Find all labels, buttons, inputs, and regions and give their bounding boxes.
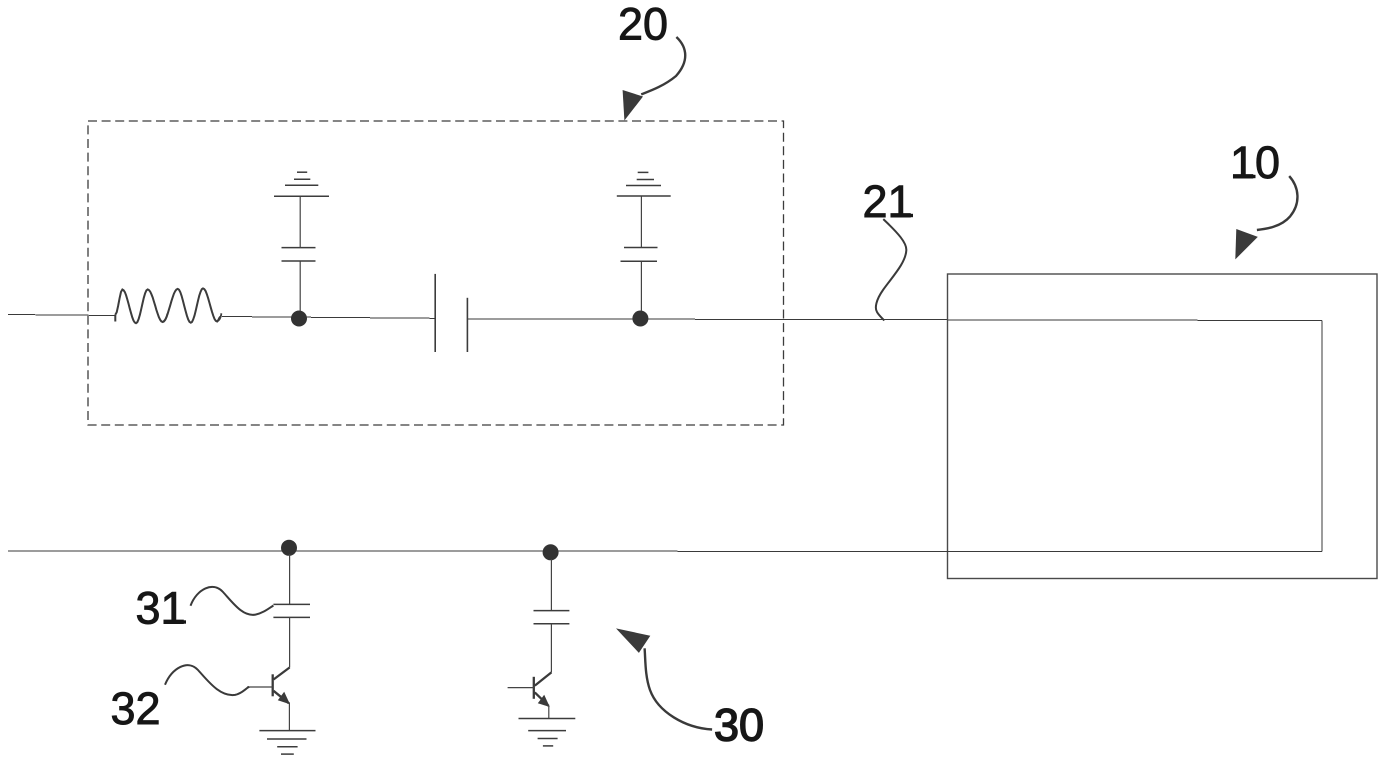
ground (above C1, pointing up)	[274, 172, 329, 196]
wire: bottom feed line	[8, 550, 1322, 553]
svg-text:20: 20	[618, 0, 668, 50]
svg-text:30: 30	[714, 700, 764, 751]
capacitor C1 plates	[282, 260, 316, 262]
junction node D (bottom wire, right)	[543, 544, 559, 560]
leader arrow for 30	[645, 648, 713, 729]
transistor Q2	[508, 672, 552, 718]
wire: top feed line, left segment into box	[8, 315, 115, 316]
ground (Q1 emitter)	[259, 731, 315, 755]
leader squiggle for 31 (to capacitor 31)	[191, 587, 274, 615]
leader arrow for 20	[641, 37, 685, 94]
capacitor C1 (shunt, left) : stem from node A	[299, 261, 301, 311]
leader arrow for 10	[1257, 176, 1298, 230]
wire: top line from C2 to loop antenna	[467, 319, 1322, 321]
dashed box: matching network 20	[88, 121, 784, 425]
wire: node D down to capacitor C5	[550, 559, 552, 611]
capacitor C3 plates	[621, 260, 658, 262]
ground (Q2 emitter)	[519, 719, 576, 746]
wire: C3 to ground	[640, 196, 642, 248]
junction node C (bottom wire, left)	[281, 540, 297, 556]
capacitor C3 (shunt, right) : stem from node B	[640, 261, 642, 311]
leader squiggle for 32 (to Q1 base)	[165, 665, 249, 695]
capacitor C2 right plate	[466, 298, 468, 352]
antenna loop 10 : inner U (right edge of feed loop)	[1321, 321, 1323, 552]
ground (above C3, pointing up)	[617, 172, 671, 196]
wire: top line from coil to series capacitor	[222, 317, 435, 319]
junction node B (top wire, right)	[632, 311, 648, 327]
svg-text:10: 10	[1230, 137, 1280, 188]
capacitor C2 (series) left plate	[434, 274, 436, 352]
wire: node C down to capacitor 31	[289, 554, 291, 604]
svg-text:32: 32	[111, 683, 161, 734]
transistor Q1 (labelled 32)	[247, 668, 290, 731]
svg-text:31: 31	[136, 583, 186, 634]
svg-text:21: 21	[863, 176, 913, 227]
antenna loop 10 : outer rectangle	[948, 274, 1378, 579]
capacitor C5 plates	[534, 610, 570, 612]
capacitor 31 plates	[273, 603, 310, 605]
inductor L (coil)	[115, 288, 220, 323]
junction node A (top wire, left)	[291, 311, 307, 327]
wire: capacitor C5 to transistor Q2 collector	[550, 624, 552, 673]
wire: C1 to ground	[299, 196, 301, 247]
wire: capacitor 31 to transistor Q1 collector	[289, 617, 291, 667]
leader squiggle for 21 (to top wire)	[876, 219, 906, 320]
